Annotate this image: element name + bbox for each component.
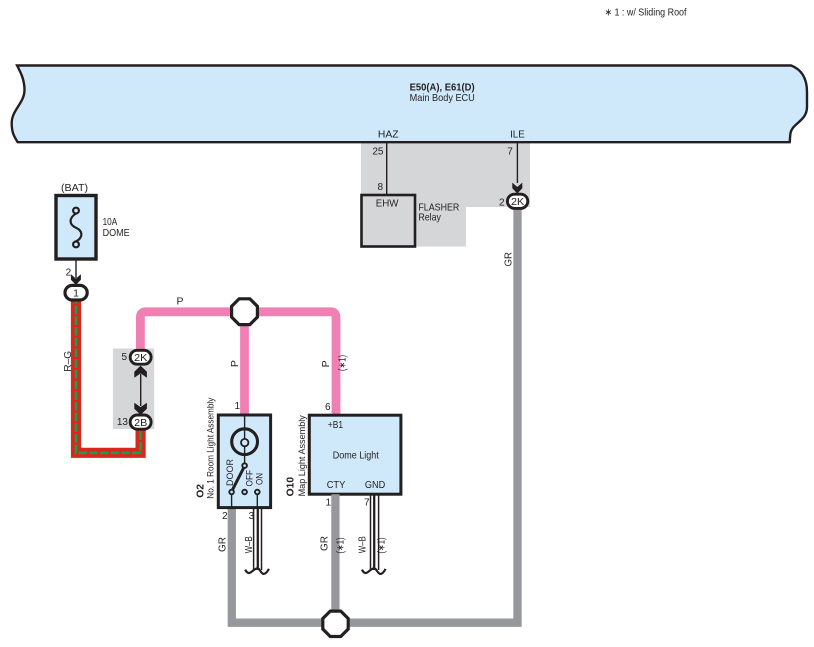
svg-text:(∗1): (∗1) xyxy=(338,355,349,371)
wire R-G green stripe xyxy=(76,295,141,453)
svg-text:+B1: +B1 xyxy=(328,419,343,431)
svg-text:2: 2 xyxy=(222,511,228,522)
svg-text:6: 6 xyxy=(325,402,331,413)
svg-text:GR: GR xyxy=(319,536,331,551)
wire fuse to connector 1 xyxy=(75,259,77,278)
switch common contact xyxy=(242,463,247,468)
svg-text:25: 25 xyxy=(372,147,384,158)
svg-text:O10: O10 xyxy=(286,477,297,497)
connector 1 (fuse out) xyxy=(65,285,87,300)
arrow down above 2B xyxy=(134,403,147,415)
svg-text:1: 1 xyxy=(73,287,79,299)
lamp filament loop xyxy=(241,439,248,446)
svg-text:ILE: ILE xyxy=(510,129,525,141)
map light assembly box O10 xyxy=(309,415,401,494)
svg-text:P: P xyxy=(229,360,241,367)
svg-text:ON: ON xyxy=(255,473,265,485)
fuse 10A DOME box xyxy=(56,196,96,260)
arrow up below 2K xyxy=(134,366,147,378)
wire DOOR contact to pin 2 xyxy=(231,495,233,508)
connector 2K (junction) xyxy=(130,350,151,364)
wire pink P branch to room light xyxy=(240,312,249,415)
svg-text:GR: GR xyxy=(503,252,515,267)
svg-text:OFF: OFF xyxy=(244,469,254,486)
FLASHER relay box EHW xyxy=(362,195,416,247)
svg-text:2: 2 xyxy=(66,267,72,278)
wire GR from 2K to bottom junction xyxy=(232,206,518,623)
svg-text:W–B: W–B xyxy=(357,536,369,553)
svg-text:P: P xyxy=(177,296,184,308)
svg-text:GR: GR xyxy=(217,537,229,552)
wire ILE down xyxy=(516,142,518,183)
junction octagon J2 xyxy=(323,611,348,636)
contact ON xyxy=(255,490,260,495)
Main Body ECU band E50(A), E61(D) xyxy=(12,66,807,143)
arrow at ILE wire xyxy=(512,183,522,194)
connector 2B xyxy=(130,415,151,429)
wire between 2K and 2B xyxy=(140,374,142,406)
squiggle end room light W-B xyxy=(245,568,269,574)
svg-text:1: 1 xyxy=(325,498,331,509)
room light assembly box O2 xyxy=(218,415,270,508)
svg-text:(∗1): (∗1) xyxy=(336,537,347,553)
svg-text:CTY: CTY xyxy=(327,479,346,491)
wire ON contact to pin 3 xyxy=(256,495,258,508)
lamp pin wire xyxy=(244,415,246,439)
wire R-G red xyxy=(76,295,141,453)
wire W-B map light xyxy=(371,494,379,570)
contact DOOR xyxy=(229,490,234,495)
svg-text:EHW: EHW xyxy=(376,198,399,210)
shade region 2K/2B junction xyxy=(113,349,154,430)
svg-text:7: 7 xyxy=(364,498,370,509)
lamp bulb xyxy=(232,429,258,455)
contact OFF xyxy=(242,490,247,495)
svg-text:Map Light Assembly: Map Light Assembly xyxy=(297,415,307,497)
junction octagon J1 xyxy=(232,299,258,325)
svg-text:13: 13 xyxy=(117,417,129,428)
svg-text:(BAT): (BAT) xyxy=(61,182,88,194)
svg-text:1: 1 xyxy=(234,401,240,412)
svg-text:P: P xyxy=(320,360,332,367)
squiggle end map light W-B xyxy=(362,568,386,574)
svg-text:DOOR: DOOR xyxy=(225,459,235,486)
wire GR from CTY to junction xyxy=(331,494,339,623)
svg-text:2K: 2K xyxy=(134,352,147,364)
svg-text:Dome Light: Dome Light xyxy=(333,449,379,461)
svg-text:Relay: Relay xyxy=(418,212,441,224)
wire HAZ to EHW xyxy=(386,142,388,195)
svg-text:Main Body ECU: Main Body ECU xyxy=(410,93,475,104)
wire W-B room light xyxy=(254,508,262,570)
svg-text:7: 7 xyxy=(507,147,513,158)
shade region around FLASHER relay xyxy=(361,142,530,247)
svg-text:R–G: R–G xyxy=(62,351,74,372)
svg-text:GND: GND xyxy=(365,479,386,491)
svg-text:2B: 2B xyxy=(134,417,147,429)
svg-text:DOME: DOME xyxy=(103,227,130,239)
wire pink P main xyxy=(140,312,336,415)
svg-text:5: 5 xyxy=(121,352,127,363)
svg-text:∗ 1 : w/ Sliding Roof: ∗ 1 : w/ Sliding Roof xyxy=(605,7,687,18)
svg-text:2K: 2K xyxy=(511,196,524,208)
arrow at fuse wire xyxy=(71,274,81,285)
svg-text:HAZ: HAZ xyxy=(378,129,399,141)
connector 2K (ILE) xyxy=(507,194,527,208)
svg-text:2: 2 xyxy=(499,198,505,209)
switch lever xyxy=(233,468,244,490)
svg-text:8: 8 xyxy=(377,182,383,193)
svg-text:No. 1 Room Light Assembly: No. 1 Room Light Assembly xyxy=(206,397,216,498)
fuse symbol xyxy=(71,208,82,248)
